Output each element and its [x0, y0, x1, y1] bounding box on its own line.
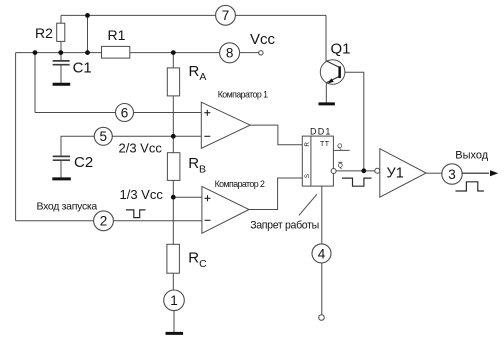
node pin3 circle	[442, 164, 462, 184]
node pin8 circle	[220, 43, 240, 63]
wire DD1 Qbar to U1 input	[336, 170, 375, 172]
resistor R2	[57, 23, 65, 41]
node pin7 circle	[216, 5, 236, 25]
svg-text:6: 6	[121, 105, 129, 120]
svg-text:Вход запуска: Вход запуска	[37, 201, 98, 213]
wire Q1 emitter to ground	[325, 83, 327, 103]
Vcc terminal	[259, 51, 263, 55]
junction node R1 rail / top branch	[85, 50, 90, 55]
op-amp comparator 1	[201, 102, 250, 148]
wire Q1 base to Qbar node	[341, 72, 364, 168]
ground below C1	[53, 83, 71, 86]
svg-text:Компаратор 1: Компаратор 1	[218, 90, 268, 100]
wire left vertical to trigger row	[15, 53, 17, 221]
resistor RC	[167, 244, 180, 273]
wire U1 output to pin3	[426, 172, 442, 174]
svg-text:Запрет работы: Запрет работы	[250, 219, 319, 231]
junction node R1 rail / C1 R2	[58, 50, 63, 55]
wire pin1 to ground	[173, 311, 175, 333]
svg-text:Q: Q	[337, 143, 342, 150]
svg-text:RC: RC	[188, 250, 207, 270]
wire comparator2 output to DD1 S input	[249, 178, 302, 210]
resistor RA	[167, 68, 179, 96]
svg-text:R: R	[304, 142, 311, 147]
wire vertical from top rail to R1 rail	[87, 15, 89, 52]
svg-text:7: 7	[222, 8, 230, 23]
flip-flop DD1	[302, 136, 343, 186]
node pin5 circle	[94, 127, 112, 145]
buffer U1	[375, 149, 426, 198]
wire DD1 pin4 upper	[321, 186, 323, 244]
capacitor C2	[53, 156, 70, 160]
wire DD1 pin4 lower to terminal	[321, 263, 323, 315]
wire trigger row to comparator2 minus	[16, 220, 202, 222]
wire 1/3Vcc row to comparator2 plus	[173, 196, 202, 198]
svg-text:4: 4	[318, 246, 326, 261]
svg-text:3: 3	[448, 167, 456, 182]
svg-text:1/3 Vcc: 1/3 Vcc	[120, 187, 164, 202]
wire top rail pin7	[61, 14, 326, 16]
wire pin6 row to comparator1 plus	[35, 112, 201, 114]
junction node R1 rail / pin6 branch	[33, 50, 38, 55]
svg-text:RB: RB	[188, 155, 206, 175]
junction node 1/3 Vcc	[171, 195, 176, 200]
svg-text:Q: Q	[338, 163, 343, 170]
svg-text:Компаратор 2: Компаратор 2	[215, 179, 265, 189]
wire comparator1 output to DD1 R input	[250, 125, 302, 145]
wire C1 bottom lead to ground	[60, 65, 62, 83]
wire C1 top lead	[60, 53, 62, 61]
svg-text:1: 1	[170, 293, 178, 308]
pulse symbol at trigger input	[126, 210, 146, 218]
transistor Q1	[320, 60, 345, 85]
svg-text:RA: RA	[189, 63, 207, 83]
capacitor C1	[53, 61, 70, 65]
pulse symbol at U1 input	[342, 178, 372, 186]
junction node 2/3 Vcc	[171, 134, 176, 139]
op-amp comparator 2	[202, 186, 249, 233]
wire R1 rail right part to Vcc	[130, 52, 259, 54]
wire R2 top lead	[60, 15, 62, 23]
node pin4 circle	[312, 244, 331, 263]
junction node R1 rail / divider column	[171, 50, 176, 55]
junction node Qbar / Q1 base	[361, 168, 366, 173]
wire DD1 Q stub	[333, 149, 349, 151]
junction node top rail	[85, 13, 90, 18]
svg-text:2/3 Vcc: 2/3 Vcc	[119, 141, 163, 156]
node pin6 circle	[116, 104, 134, 122]
svg-text:Vcc: Vcc	[250, 31, 276, 48]
pin label R (rotated)	[304, 142, 311, 147]
pulse symbol at output	[456, 182, 484, 191]
svg-text:R1: R1	[108, 27, 126, 43]
svg-text:R2: R2	[35, 25, 53, 41]
wire R2 bottom lead	[60, 41, 62, 52]
svg-text:S: S	[304, 174, 311, 178]
pin4 open terminal	[319, 315, 325, 321]
svg-text:8: 8	[226, 46, 234, 61]
svg-text:TT: TT	[320, 141, 330, 148]
wire R1 rail left part	[16, 52, 102, 54]
wire second vertical to pin6 row	[34, 53, 36, 113]
ground below pin1	[166, 332, 184, 335]
wire Q1 collector from top rail	[325, 15, 327, 60]
svg-text:Выход: Выход	[455, 149, 488, 161]
svg-text:У1: У1	[387, 166, 404, 182]
resistor RB	[167, 153, 180, 181]
svg-text:C2: C2	[74, 154, 93, 171]
output arrow pin3	[462, 170, 498, 176]
resistor R1	[102, 46, 130, 58]
wire annotation pointer to pin4 line	[299, 194, 317, 215]
wire 2/3Vcc row: C2 corner to comparator1 minus	[61, 136, 201, 156]
ground below C2	[52, 177, 71, 180]
node pin2 circle	[94, 211, 114, 231]
pin label S (rotated)	[304, 174, 311, 178]
svg-text:Q1: Q1	[331, 41, 351, 58]
svg-text:5: 5	[100, 129, 108, 144]
Qbar output bubble	[331, 169, 336, 174]
wire C2 bottom lead to ground	[60, 161, 62, 178]
node pin1 circle	[164, 290, 185, 311]
svg-text:DD1: DD1	[310, 126, 332, 136]
svg-text:C1: C1	[73, 60, 92, 77]
svg-text:2: 2	[100, 214, 108, 229]
ground below Q1	[319, 102, 335, 105]
wire divider column RA RB RC	[172, 53, 174, 291]
